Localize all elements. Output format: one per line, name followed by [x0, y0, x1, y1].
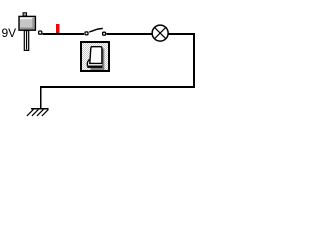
svg-text:9V: 9V: [2, 26, 17, 40]
switch S1 (open): [85, 28, 106, 35]
battery B1 (9V cell, pictorial): [19, 13, 35, 51]
lamp L1: [152, 25, 168, 41]
wire battery to switch: [43, 33, 85, 35]
node terminal at battery: [39, 31, 42, 34]
fuse indicator (red tick): [56, 24, 60, 33]
wire lamp to ground (right side, bottom, down to earth): [41, 34, 194, 108]
ground (earth symbol): [27, 109, 49, 116]
switch component box (dithered icon panel): [81, 42, 109, 71]
rocker switch icon inside box: [87, 47, 104, 70]
wire switch to lamp: [106, 33, 152, 35]
